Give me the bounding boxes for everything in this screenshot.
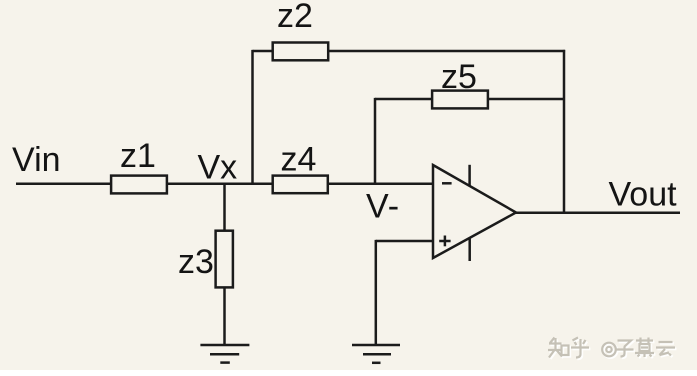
resistor z5 — [432, 91, 488, 109]
resistor z3 — [216, 231, 233, 288]
svg-text:z5: z5 — [441, 58, 477, 96]
ground under z3 — [200, 345, 249, 363]
op-amp negative supply pin — [468, 238, 471, 261]
wire feedback vertical to output — [563, 50, 566, 214]
label z5 — [441, 58, 477, 96]
wire z1 to z4 — [168, 183, 273, 186]
wire op-amp output to Vout — [515, 211, 680, 214]
label z4 — [281, 141, 317, 179]
op-amp minus pin mark — [442, 182, 452, 185]
wire z3 to ground — [223, 288, 226, 345]
op-amp plus pin mark — [439, 236, 450, 247]
svg-text:z3: z3 — [178, 243, 214, 281]
wire z4 to op-amp inverting input — [328, 183, 433, 186]
wire z5 to feedback vertical — [488, 98, 565, 101]
svg-text:Vx: Vx — [198, 149, 238, 187]
op-amp positive supply pin — [468, 165, 471, 186]
wire non-inverting input — [376, 240, 434, 243]
node Vin label — [12, 141, 61, 179]
svg-text:Vout: Vout — [609, 176, 678, 214]
node V- label — [366, 188, 400, 226]
resistor z2 — [273, 43, 329, 61]
wire node Vx down to z3 — [223, 184, 226, 230]
wire Vin to z1 — [16, 183, 111, 186]
ground under op-amp — [352, 345, 400, 363]
wire z2 branch vertical from main line — [251, 50, 254, 185]
svg-text:Vin: Vin — [12, 141, 61, 179]
svg-text:V-: V- — [366, 188, 400, 226]
op-amp U1 triangle — [433, 165, 516, 258]
wire z2 branch to resistor — [253, 50, 273, 53]
node Vout label — [609, 176, 678, 214]
wire z2 to feedback vertical — [329, 50, 565, 53]
svg-text:z1: z1 — [120, 137, 156, 175]
wire z5 branch vertical — [374, 98, 377, 185]
resistor z4 — [273, 176, 328, 194]
wire non-inverting input to ground — [375, 240, 378, 345]
resistor z1 — [111, 176, 167, 194]
wire z5 branch to resistor — [375, 98, 432, 101]
label z3 — [178, 243, 214, 281]
label z2 — [277, 0, 313, 35]
svg-text:z4: z4 — [281, 141, 317, 179]
node Vx label — [198, 149, 238, 187]
label z1 — [120, 137, 156, 175]
svg-text:z2: z2 — [277, 0, 313, 35]
